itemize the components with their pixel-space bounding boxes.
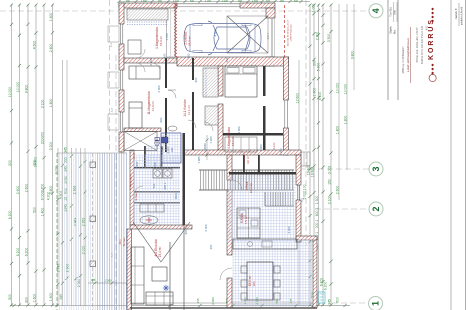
- door arc corridor: [168, 90, 176, 98]
- small rooms partition x243: [243, 155, 245, 172]
- svg-text:2 600: 2 600: [24, 184, 28, 193]
- svg-text:4: 4: [371, 8, 381, 13]
- svg-text:10 000: 10 000: [16, 82, 20, 92]
- kitchen block left wall b: [227, 190, 232, 255]
- svg-text:7,5 m²: 7,5 m²: [244, 216, 248, 225]
- axis bubble 1: [369, 297, 383, 310]
- dining table: [247, 262, 273, 300]
- svg-text:A-4: A-4: [109, 42, 113, 47]
- gallery edge line 2: [183, 200, 185, 310]
- svg-text:1 200: 1 200: [205, 0, 212, 3]
- svg-text:8.Pesuruum: 8.Pesuruum: [129, 174, 133, 190]
- door arc wc: [155, 142, 163, 150]
- grid axis A-6 dashed line: [305, 0, 307, 245]
- garage zigzag base: [175, 3, 177, 57]
- door arc master: [204, 122, 213, 131]
- svg-text:5 300: 5 300: [316, 63, 320, 72]
- axis bubble 2: [369, 202, 383, 216]
- left dimension labels: [8, 13, 86, 303]
- plant: [163, 285, 169, 291]
- closet bedroom 1 right: [167, 8, 176, 57]
- dresser bedroom 1: [128, 40, 141, 54]
- title signer underline: [458, 3, 460, 26]
- garage door top: [177, 4, 240, 7]
- svg-text:1 000: 1 000: [259, 144, 263, 151]
- svg-text:900: 900: [280, 0, 285, 3]
- garage right wall upper: [266, 8, 275, 18]
- svg-text:2 100: 2 100: [173, 0, 180, 3]
- hall dim line: [205, 135, 208, 160]
- grid axis 4 dashed line: [0, 10, 368, 12]
- svg-text:9.Saun: 9.Saun: [134, 191, 138, 200]
- pergola axis dashed: [92, 153, 94, 310]
- korrus circle: [429, 74, 436, 81]
- svg-text:12 600: 12 600: [295, 93, 299, 103]
- svg-text:11,0 m²: 11,0 m²: [151, 101, 155, 111]
- sauna bench: [140, 204, 164, 212]
- svg-text:3 800: 3 800: [350, 51, 354, 60]
- corridor left wall b: [165, 98, 167, 152]
- dryer: [163, 169, 172, 178]
- svg-text:3 300: 3 300: [279, 148, 283, 155]
- svg-text:2 000: 2 000: [54, 166, 58, 175]
- kitchen block left wall c: [227, 278, 232, 308]
- svg-text:1 300: 1 300: [315, 196, 319, 205]
- svg-text:2,2 m²: 2,2 m²: [273, 142, 276, 149]
- dining floor tiles: [233, 240, 313, 307]
- wc toilet: [155, 138, 160, 147]
- gallery treads: [201, 170, 293, 190]
- corridor left wall a: [165, 58, 167, 88]
- svg-text:4,0 m²: 4,0 m²: [246, 156, 250, 164]
- sauna living wall: [130, 225, 192, 229]
- wardrobe bedroom right a: [203, 68, 218, 97]
- svg-text:T.nr 03a: T.nr 03a: [389, 7, 393, 17]
- bath partition y167: [134, 167, 180, 168]
- grid axis 1 stub: [332, 302, 369, 304]
- svg-text:900: 900: [194, 77, 198, 82]
- pergola post 3: [90, 261, 96, 267]
- svg-text:900: 900: [187, 53, 191, 58]
- door arc corridor2: [188, 120, 196, 128]
- svg-text:1 985: 1 985: [197, 156, 201, 163]
- garage door: [272, 18, 275, 57]
- svg-text:600 L: 600 L: [163, 182, 167, 189]
- svg-text:15,9 m²: 15,9 m²: [159, 36, 163, 46]
- svg-text:MTR reg. nr EEP000617: MTR reg. nr EEP000617: [402, 46, 405, 75]
- bath right wall: [183, 133, 186, 225]
- svg-text:1 800: 1 800: [49, 99, 53, 108]
- car in garage: [184, 21, 261, 55]
- shower: [162, 137, 169, 143]
- entrance steps: [301, 152, 310, 166]
- door arc living: [220, 268, 232, 280]
- svg-text:345: 345: [196, 298, 200, 303]
- sauna heater: [140, 216, 158, 224]
- window right mid: [285, 100, 288, 128]
- svg-text:4 200: 4 200: [46, 192, 50, 201]
- svg-text:tulemüür EI-60 kuni +2,5 m: tulemüür EI-60 kuni +2,5 m: [287, 20, 290, 47]
- svg-text:900: 900: [238, 0, 243, 3]
- closet rail bedroom 1b: [127, 24, 168, 26]
- svg-text:1 800: 1 800: [312, 88, 316, 97]
- svg-text:500: 500: [294, 0, 299, 3]
- outer wall left segment 1: [119, 3, 124, 24]
- svg-text:2 300: 2 300: [287, 226, 291, 233]
- gallery edge line: [169, 242, 171, 310]
- grid axis A-5 dashed line: [115, 55, 117, 310]
- svg-text:600 1: 600 1: [315, 208, 319, 217]
- window W1 left: [108, 24, 123, 44]
- svg-text:16,1 m²: 16,1 m²: [231, 136, 235, 146]
- terrace dim labels: [91, 278, 112, 283]
- svg-text:900: 900: [184, 229, 188, 234]
- dining right wall: [313, 238, 317, 308]
- svg-text:6 200: 6 200: [323, 282, 327, 291]
- svg-text:1 000: 1 000: [311, 4, 315, 13]
- svg-text:2 900: 2 900: [65, 264, 69, 273]
- svg-text:1 500: 1 500: [252, 0, 259, 3]
- svg-text:103: 103: [252, 281, 256, 286]
- bath partition y191: [134, 191, 180, 192]
- small room tiles: [146, 146, 160, 166]
- title field underline 1: [393, 2, 395, 22]
- kitchen floor tiles: [229, 176, 296, 242]
- outer wall right lower 1: [296, 155, 301, 185]
- left dimension ticks: [10, 23, 87, 286]
- small rooms partition x258: [258, 155, 260, 172]
- svg-text:2 700: 2 700: [40, 184, 44, 193]
- svg-text:2000/00: 2000/00: [40, 132, 44, 144]
- svg-text:2 400: 2 400: [49, 44, 53, 53]
- svg-text:500: 500: [335, 297, 339, 303]
- svg-text:19 900: 19 900: [33, 157, 37, 167]
- bottom dimension baseline: [10, 303, 350, 307]
- title block line 1: [387, 0, 389, 100]
- left dimension lines: [10, 3, 54, 306]
- sofa living vertical: [131, 247, 144, 304]
- svg-text:23,4 m²: 23,4 m²: [158, 247, 162, 258]
- svg-text:2 300: 2 300: [204, 224, 208, 231]
- svg-text:10,1 m²: 10,1 m²: [249, 183, 253, 193]
- svg-text:400: 400: [209, 244, 213, 249]
- closet rail wardrobe right: [205, 68, 207, 97]
- door arc bath: [134, 186, 143, 195]
- svg-text:+2000 P tulemüür: +2000 P tulemüür: [289, 24, 292, 42]
- legend box: [318, 292, 325, 303]
- svg-text:3: 3: [371, 166, 381, 171]
- svg-text:900: 900: [159, 117, 163, 122]
- garage parking cross: [227, 16, 268, 53]
- dressing wall x263: [263, 66, 266, 155]
- door arc bedroom1: [136, 49, 145, 58]
- plan bottom edge: [130, 307, 317, 309]
- door arc esik: [232, 180, 242, 190]
- interior wall y58: [124, 58, 177, 63]
- svg-text:Ehit.: Ehit.: [393, 9, 397, 14]
- svg-text:1 000: 1 000: [237, 126, 241, 133]
- sofa living horizontal: [146, 292, 173, 305]
- window W3 left: [108, 112, 123, 132]
- pergola post 1: [90, 162, 96, 168]
- spine wall segment 3: [218, 104, 223, 152]
- pergola post 2: [90, 216, 96, 222]
- cabinet row lower: [225, 137, 257, 152]
- outer wall left segment 4: [119, 132, 124, 152]
- outer wall left segment 3: [119, 90, 124, 112]
- svg-text:11,1 m²: 11,1 m²: [187, 105, 191, 115]
- svg-text:345: 345: [327, 299, 331, 305]
- living room left wall: [127, 229, 132, 310]
- bath block left wall: [130, 150, 134, 225]
- right dimension labels: [295, 4, 354, 305]
- wardrobe bedroom right b: [205, 106, 218, 125]
- wardrobe bedroom1: [127, 9, 168, 20]
- bath partition y203: [134, 202, 180, 203]
- door arc bedroom11: [136, 63, 145, 72]
- svg-text:2 300: 2 300: [149, 58, 153, 65]
- title block line 3: [450, 0, 452, 310]
- svg-text:3 002: 3 002: [327, 166, 331, 175]
- svg-text:10 000: 10 000: [343, 84, 347, 94]
- svg-text:Rist: Rist: [393, 29, 397, 34]
- svg-text:2 400: 2 400: [222, 0, 229, 3]
- window right lower: [297, 185, 300, 200]
- garage right wall lower: [266, 57, 275, 66]
- svg-text:985: 985: [91, 278, 96, 282]
- top dimension labels: [126, 0, 299, 3]
- interior wall y133: [223, 133, 283, 136]
- svg-text:2 963: 2 963: [72, 186, 76, 195]
- svg-text:000 1: 000 1: [315, 220, 319, 229]
- svg-text:500: 500: [32, 207, 36, 213]
- svg-text:432: 432: [425, 25, 429, 30]
- grid axis A-4 dashed line: [109, 0, 111, 152]
- room labels red: [129, 27, 277, 287]
- svg-text:900: 900: [135, 161, 139, 166]
- kitchen counter left: [237, 208, 260, 238]
- svg-text:200: 200: [8, 160, 12, 166]
- wc room outline blue: [161, 133, 181, 163]
- outer wall top right: [240, 3, 275, 8]
- svg-text:Tallinn Tel 6 142 432 Fax 6 14: Tallinn Tel 6 142 432 Fax 6 142: [420, 25, 424, 64]
- title block line 2: [397, 0, 399, 100]
- svg-text:2 000: 2 000: [211, 297, 215, 305]
- svg-text:600: 600: [190, 0, 195, 3]
- svg-text:500: 500: [8, 294, 12, 300]
- partition shower left: [144, 146, 146, 167]
- svg-text:6 000: 6 000: [40, 192, 44, 201]
- svg-text:2 300: 2 300: [157, 85, 161, 92]
- svg-text:OO1: OO1: [174, 193, 178, 199]
- roof V line left: [133, 222, 161, 262]
- svg-text:3 100: 3 100: [40, 100, 44, 109]
- bath floor tiles: [134, 155, 180, 225]
- outer wall right lower 2: [296, 200, 301, 242]
- bed master: [225, 66, 257, 97]
- svg-text:1 600: 1 600: [32, 294, 36, 303]
- svg-text:150: 150: [327, 179, 331, 185]
- bottom dimension labels: [196, 297, 293, 305]
- svg-text:4 100: 4 100: [318, 92, 322, 101]
- svg-text:4 500: 4 500: [32, 41, 36, 50]
- svg-text:1 800: 1 800: [335, 126, 339, 135]
- svg-text:9 800: 9 800: [24, 85, 28, 94]
- svg-text:e-mail: aktiivsus@aktiivsus.e: e-mail: aktiivsus@aktiivsus.ee: [407, 37, 410, 72]
- svg-text:1 800: 1 800: [141, 0, 148, 3]
- wc floor tiles: [161, 133, 181, 163]
- svg-text:10 000: 10 000: [335, 83, 339, 93]
- small rooms wall y172: [229, 172, 296, 175]
- svg-text:5 002 100: 5 002 100: [302, 184, 306, 199]
- svg-text:600: 600: [266, 0, 271, 3]
- stair lower flight: [265, 192, 294, 206]
- window W2 left: [108, 70, 123, 90]
- svg-text:300: 300: [24, 297, 28, 303]
- email underline: [410, 27, 412, 83]
- dining chairs: [241, 266, 280, 300]
- svg-text:1 300: 1 300: [243, 297, 247, 305]
- svg-text:6 200: 6 200: [16, 248, 20, 257]
- fire wall dashed line: [284, 5, 286, 57]
- svg-text:500: 500: [152, 183, 156, 188]
- svg-text:arhitekt A.Novik: arhitekt A.Novik: [461, 6, 464, 25]
- svg-text:3 200: 3 200: [49, 142, 53, 151]
- axis bubble 4: [369, 4, 383, 18]
- outer wall top left: [119, 3, 177, 8]
- svg-text:1 800: 1 800: [343, 116, 347, 125]
- svg-text:345: 345: [63, 147, 67, 153]
- svg-text:2 600: 2 600: [335, 186, 339, 195]
- kitchen counter bottom: [233, 239, 297, 249]
- spine wall segment 2: [218, 66, 223, 96]
- svg-text:1 600: 1 600: [49, 293, 53, 302]
- kitchen block left wall a: [227, 155, 232, 180]
- terrace dim line: [88, 281, 130, 284]
- svg-text:2: 2: [371, 206, 381, 211]
- wc sink: [168, 126, 177, 131]
- svg-text:2 100: 2 100: [327, 196, 331, 205]
- svg-text:900: 900: [163, 53, 167, 58]
- outer wall right mid 1: [284, 57, 289, 100]
- partition shower right: [161, 146, 163, 167]
- grid axis 3 stub: [300, 168, 369, 170]
- svg-text:Jaanis E: Jaanis E: [454, 8, 458, 19]
- svg-text:2,1 m²: 2,1 m²: [167, 146, 170, 153]
- washer: [153, 169, 162, 178]
- svg-text:G/J 7: G/J 7: [266, 32, 270, 39]
- closet rail bedroom 1: [127, 21, 168, 23]
- svg-text:1 700: 1 700: [165, 33, 169, 40]
- garage back wall: [177, 57, 289, 66]
- svg-text:Objekt: Objekt: [389, 26, 393, 34]
- interior dimension labels: [135, 29, 291, 249]
- svg-text:A-5: A-5: [110, 107, 114, 112]
- dining top wall: [296, 236, 317, 240]
- corridor right wall b: [192, 92, 194, 152]
- wall y128 under bedroom11: [124, 128, 161, 132]
- roof V line right: [161, 222, 190, 262]
- gallery rail bottom: [199, 189, 294, 191]
- svg-text:2 600: 2 600: [16, 186, 20, 195]
- svg-text:25,0 m²: 25,0 m²: [188, 36, 192, 46]
- svg-text:1 200: 1 200: [209, 136, 213, 143]
- door arc bedroom11 b: [152, 63, 160, 71]
- svg-text:107: 107: [171, 147, 174, 152]
- terrace label: [118, 237, 126, 247]
- grid axis 2 stub: [315, 208, 369, 210]
- svg-text:3 500: 3 500: [327, 34, 331, 43]
- svg-text:10 000: 10 000: [8, 87, 12, 97]
- outer wall left segment 2: [119, 44, 124, 70]
- coffee table: [152, 267, 167, 281]
- korrus dots: [431, 8, 434, 75]
- svg-text:600: 600: [153, 162, 157, 167]
- svg-text:1: 1: [370, 301, 380, 306]
- right dimension lines: [299, 3, 354, 306]
- garage zigzag wall: [174, 3, 176, 57]
- svg-text:2 000: 2 000: [105, 279, 112, 283]
- sheet right edge: [465, 0, 467, 310]
- svg-text:900: 900: [126, 0, 131, 3]
- svg-text:900: 900: [158, 0, 163, 3]
- svg-text:1 300/85: 1 300/85: [204, 143, 207, 153]
- corridor right wall a: [192, 58, 194, 80]
- svg-text:1 400: 1 400: [40, 208, 44, 217]
- bed bedroom 1: [129, 66, 160, 79]
- axis bubble 3: [369, 162, 383, 176]
- left dimension lines inner: [58, 60, 85, 306]
- svg-text:4,0 m²: 4,0 m²: [132, 152, 136, 159]
- bed bedroom 11: [129, 102, 142, 128]
- title field underline 2: [396, 2, 398, 22]
- svg-text:K O R R U S: K O R R U S: [428, 20, 435, 60]
- svg-text:600: 600: [225, 57, 229, 62]
- svg-text:6 200: 6 200: [8, 211, 12, 220]
- outer wall right mid 2: [284, 128, 289, 155]
- main wall y150: [183, 150, 301, 155]
- gallery rail top: [199, 169, 294, 171]
- right dimension ticks: [308, 9, 332, 286]
- terrace deck boards: [57, 153, 127, 310]
- shaft cross: [124, 132, 157, 151]
- svg-text:6 200: 6 200: [24, 248, 28, 257]
- top dimension line: [117, 0, 310, 3]
- svg-text:4 900: 4 900: [214, 29, 218, 36]
- svg-text:Terrass: Terrass: [122, 237, 126, 247]
- svg-text:1 600: 1 600: [49, 13, 53, 22]
